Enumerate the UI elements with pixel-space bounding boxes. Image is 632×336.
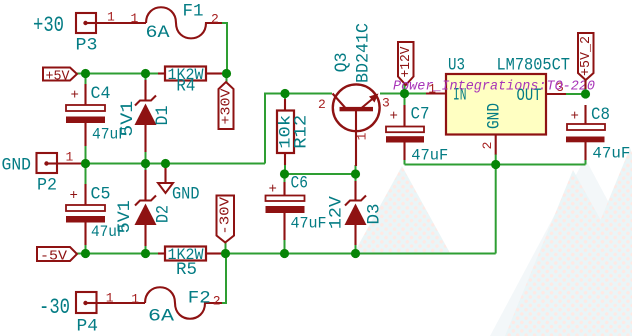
svg-text:1: 1 [131,11,139,26]
wire D1 top stub [145,74,147,82]
wire D2 bottom stub [145,245,147,254]
resistor R12 [277,99,312,165]
node -5V rail at D3 [351,249,360,258]
node C8 top [581,89,590,98]
svg-text:U3: U3 [448,56,465,76]
svg-text:47uF: 47uF [291,215,327,233]
svg-text:6A: 6A [148,307,175,327]
svg-text:+30: +30 [33,13,64,38]
wire C5 top stub [85,164,87,186]
svg-text:C5: C5 [91,185,111,205]
svg-text:1: 1 [131,292,139,307]
wire D2 top stub [145,164,147,172]
wire +5V rail left [77,73,160,75]
wire C4 top stub [85,74,87,86]
svg-text:C4: C4 [91,84,111,104]
wire F2 to -5V rail [222,254,226,304]
svg-text:2: 2 [480,142,495,150]
svg-text:-30: -30 [39,295,70,320]
wire fuse F1 to +5V rail [222,23,227,74]
svg-text:5V1: 5V1 [115,200,135,233]
svg-text:R12: R12 [292,115,312,149]
node GND rail at D1/D2 [141,159,150,168]
svg-text:D1: D1 [153,106,173,126]
wire R12 bottom stub [284,164,286,174]
transistor Q3 [318,23,390,166]
node R12 top [280,89,289,98]
capacitor C5 [66,184,126,245]
connector P2 [2,150,85,196]
capacitor C6 [266,174,327,241]
svg-text:47uF: 47uF [411,147,448,165]
svg-text:P3: P3 [76,36,98,56]
wire GND symbol stub [165,164,167,171]
node R12 bottom / C6 [280,169,289,178]
fuse F1 [131,2,223,44]
watermark mountain behind D3 [354,166,450,253]
wire -5V rail right [221,253,496,255]
fuse F2 [131,287,222,326]
connector P3 [33,10,146,56]
node -5V rail at C6 [280,249,289,258]
svg-text:-30V: -30V [217,196,233,235]
regulator U3 [426,56,570,155]
wire D1 bottom stub [145,151,147,164]
svg-text:GND: GND [2,156,32,176]
node GND rail at C4/C5 [81,159,90,168]
global label +5V [43,68,77,85]
global label +5V_2 [578,33,594,89]
node -5V rail at C5 [81,249,90,258]
svg-text:Q3: Q3 [332,52,352,72]
global label +30V [218,82,234,129]
svg-text:D2: D2 [154,205,174,223]
global label -5V [37,247,77,265]
wire C6 bottom stub [284,239,286,254]
svg-text:R4: R4 [176,77,195,97]
svg-text:LM7805CT: LM7805CT [497,56,571,76]
svg-text:5V1: 5V1 [118,101,138,137]
resistor R4 [158,66,222,97]
wire D3 bottom stub [355,244,357,254]
capacitor C4 [66,84,127,146]
svg-text:1: 1 [107,10,115,25]
svg-text:GND: GND [485,103,505,129]
wire +30V label stub [226,74,228,84]
wire U3 OUT to C8 [566,93,586,95]
svg-text:+30V: +30V [218,88,234,125]
capacitor C7 [386,105,448,165]
svg-text:D3: D3 [364,204,384,225]
svg-text:1: 1 [106,291,114,306]
svg-text:R5: R5 [176,260,197,280]
svg-text:F2: F2 [188,289,211,309]
wire C7 C8 ground line [405,164,586,166]
connector P4 [39,291,145,336]
svg-text:-5V: -5V [40,249,68,265]
zener diode D1 [118,80,173,152]
svg-text:2: 2 [211,12,219,27]
svg-text:6A: 6A [146,23,171,43]
wire C8 bottom stub [585,159,587,165]
watermark mountain far right [553,148,632,336]
svg-text:+: + [571,109,579,125]
node -5V rail at -30V [221,249,230,258]
svg-text:C7: C7 [411,105,430,125]
svg-text:+12V: +12V [398,46,414,78]
svg-text:+5V_2: +5V_2 [578,36,594,76]
node +30V junction [222,69,231,78]
wire +12V label stub [404,84,406,94]
wire -30V label stub [225,243,227,254]
svg-text:C8: C8 [591,105,610,125]
wire -5V rail left [77,253,160,255]
wire base rail R12 to D3 [285,173,356,175]
zener diode D2 [115,170,174,246]
global label -30V [217,196,235,243]
node +5V rail at D1 [141,69,150,78]
wire U3 GND down [495,154,497,254]
wire C7 top stub [404,94,406,107]
node Q3 base / D3 [351,169,360,178]
svg-text:P4: P4 [77,317,99,336]
svg-text:GND: GND [172,185,200,205]
wire riser GND rail to base line [265,94,285,164]
svg-text:Power_Integrations:TO-220: Power_Integrations:TO-220 [393,79,595,95]
wire C4 bottom stub [85,145,87,164]
watermark mountain right underlay [490,158,632,336]
resistor R5 [158,246,222,280]
svg-text:12V: 12V [326,196,346,230]
svg-text:F1: F1 [183,2,204,22]
wire GND rail [83,163,265,165]
svg-text:+: + [390,109,398,125]
node U3 GND junction [491,160,500,169]
node -5V rail at D2 [141,249,150,258]
ground symbol [158,168,200,205]
node +5V rail at C4 [81,69,90,78]
wire Q3 base stub [355,165,357,174]
wire Q3 emitter to U3 IN [380,93,426,95]
svg-text:+5V: +5V [46,69,71,85]
node GND rail at ground symbol [161,159,170,168]
svg-text:1: 1 [355,132,370,140]
wire +5V_2 stub [585,87,587,94]
wire base line to Q3 [285,93,332,95]
svg-text:P2: P2 [37,176,57,196]
svg-text:47uF: 47uF [592,145,630,163]
svg-text:1: 1 [66,150,74,165]
svg-text:2: 2 [213,294,221,309]
wire C7 bottom stub [404,159,406,165]
svg-text:C6: C6 [291,174,309,194]
wire C6 top stub [284,174,286,183]
wire D3 top stub [355,174,357,182]
capacitor C8 [566,105,630,163]
svg-text:+: + [70,188,78,204]
wire +5V rail right of R4 [221,73,227,75]
svg-text:+: + [71,88,79,104]
node C7 top [400,89,409,98]
wire C5 bottom stub [85,244,87,254]
svg-text:+: + [269,182,277,198]
svg-text:2: 2 [318,97,326,112]
svg-text:BD241C: BD241C [354,23,374,83]
wire R12 top stub [284,94,286,101]
watermark mountain right large [505,170,632,336]
zener diode D3 [326,181,384,245]
global label +12V [398,42,414,85]
